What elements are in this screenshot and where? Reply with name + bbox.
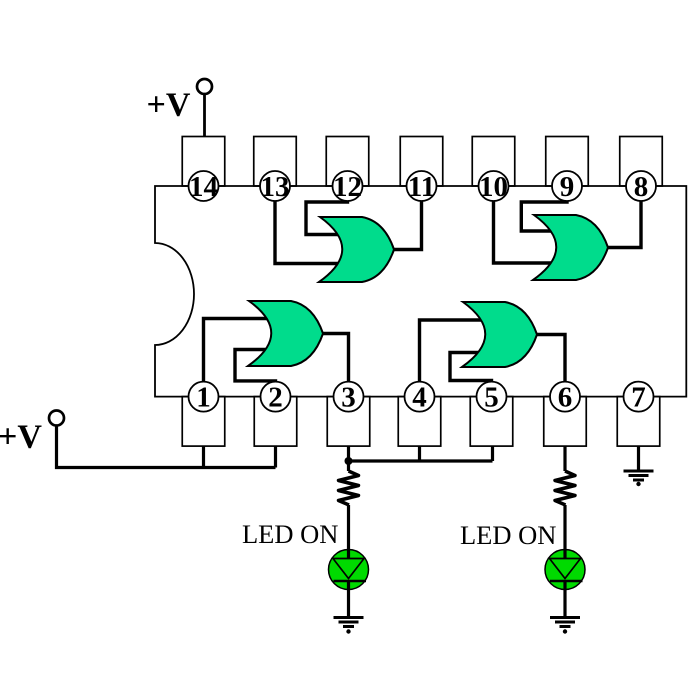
pin 9 circle <box>552 171 582 201</box>
wire pin12 hook to gate1 input <box>306 186 348 235</box>
+V terminal circle bottom <box>49 411 64 426</box>
wire pin5 stub down <box>491 446 494 461</box>
wire +V top terminal to pin14 box <box>203 92 206 137</box>
pin 1 box <box>182 397 225 447</box>
svg-text:9: 9 <box>560 171 575 203</box>
svg-text:5: 5 <box>484 382 499 414</box>
wire pin9 hook to gate2 input <box>521 186 567 231</box>
resistor R1 <box>339 471 359 505</box>
pin 8 box <box>620 137 663 187</box>
wire +V bottom terminal to pins 1,2 <box>57 424 276 468</box>
LED D1 cathode bar <box>334 580 367 582</box>
wire pin6 down to resistor R2 <box>563 446 566 471</box>
svg-text:7: 7 <box>631 382 646 414</box>
svg-text:4: 4 <box>412 382 427 414</box>
wire node junction to pins 4,5 <box>349 459 493 462</box>
svg-text:8: 8 <box>634 171 649 203</box>
pin 6 circle <box>550 382 580 412</box>
pin 9 box <box>546 137 589 187</box>
pin 10 circle <box>479 171 509 201</box>
wire pin1 to gate3 input <box>204 319 274 398</box>
LED D2 anode wire <box>563 550 566 560</box>
svg-text:LED ON: LED ON <box>460 520 556 550</box>
svg-text:2: 2 <box>268 382 283 414</box>
wire pin3 down to resistor R1 <box>347 446 350 471</box>
LED D1 body <box>329 550 369 590</box>
pin 2 box <box>254 397 297 447</box>
svg-text:LED ON: LED ON <box>242 519 338 549</box>
wire R1 to LED1 <box>347 505 350 560</box>
pin 5 circle <box>477 382 507 412</box>
resistor R2 <box>555 471 575 505</box>
pin 7 circle <box>624 382 654 412</box>
wire gate4 output to pin6 <box>533 335 565 398</box>
svg-text:14: 14 <box>189 171 218 203</box>
LED D1 triangle <box>333 559 364 579</box>
svg-text:3: 3 <box>341 382 356 414</box>
wire pin2 stub down <box>274 446 277 468</box>
pin 14 circle <box>189 171 219 201</box>
wire pin5 hook to gate4 input <box>450 353 492 398</box>
wire gate3 output to pin3 <box>319 334 349 398</box>
pin 10 box <box>472 137 515 187</box>
wire pin13 to gate1 input <box>275 186 344 264</box>
LED D2 body <box>545 550 585 590</box>
or-gate U1D (pins 4,5 -> 6) <box>462 302 537 367</box>
pin 4 circle <box>405 382 435 412</box>
pin 2 circle <box>261 382 291 412</box>
wire pin7 to ground <box>637 446 640 470</box>
svg-text:+V: +V <box>147 87 191 124</box>
svg-text:6: 6 <box>558 382 573 414</box>
or-gate U1A (pins 13,12 -> 11) <box>319 217 394 282</box>
ground symbol G3 (pin 7) <box>624 470 654 473</box>
pin 6 box <box>544 397 587 447</box>
wire pin2 hook to gate3 input <box>235 350 276 398</box>
wire LED2 to ground <box>563 582 566 617</box>
LED D1 anode wire <box>347 550 350 560</box>
pin 4 box <box>398 397 441 447</box>
pin 13 box <box>254 137 297 187</box>
wire R2 to LED2 <box>563 505 566 560</box>
or-gate U1B (pins 10,9 -> 8) <box>533 215 608 280</box>
pin 14 box <box>182 137 225 187</box>
wire pin10 to gate2 input <box>494 186 559 263</box>
wire pin4 to gate4 input <box>420 320 488 398</box>
pin 12 circle <box>333 171 363 201</box>
pin 7 box <box>617 397 660 447</box>
svg-text:1: 1 <box>196 382 211 414</box>
pin 3 circle <box>334 382 364 412</box>
svg-text:12: 12 <box>333 171 362 203</box>
wire LED1 to ground <box>347 582 350 617</box>
wire pin4 stub down <box>418 446 421 461</box>
pin 8 circle <box>626 171 656 201</box>
ground symbol G2 <box>550 616 580 619</box>
+V terminal circle top <box>197 79 212 94</box>
pin 1 circle <box>189 382 219 412</box>
wire gate2 output to pin8 <box>604 186 641 248</box>
pin 11 box <box>400 137 443 187</box>
svg-text:13: 13 <box>261 171 290 203</box>
pin 3 box <box>327 397 370 447</box>
node A junction dot <box>345 457 353 465</box>
LED D2 triangle <box>550 559 581 579</box>
IC body U1 outline with index notch <box>155 186 686 397</box>
svg-text:10: 10 <box>479 171 508 203</box>
svg-text:+V: +V <box>0 419 42 456</box>
pin 11 circle <box>407 171 437 201</box>
LED D2 cathode bar <box>550 580 583 582</box>
pin 12 box <box>326 137 369 187</box>
or-gate U1C (pins 1,2 -> 3) <box>248 301 323 366</box>
pin 5 box <box>470 397 513 447</box>
ground symbol G1 <box>334 616 364 619</box>
wire pin1 stub down <box>202 446 205 468</box>
wire gate1 output to pin11 <box>390 186 422 250</box>
pin 13 circle <box>260 171 290 201</box>
svg-text:11: 11 <box>408 171 435 203</box>
